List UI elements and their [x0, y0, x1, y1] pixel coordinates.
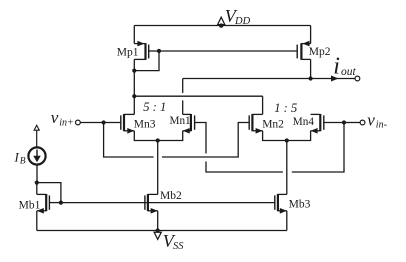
junction Mp1 drain node — [132, 69, 136, 73]
junction right tail node — [285, 138, 289, 142]
label I_B — [14, 150, 26, 167]
svg-text:Mn3: Mn3 — [134, 118, 156, 130]
wire PMOS gate bus to Mp2 — [159, 50, 297, 52]
junction v_in- node — [342, 120, 346, 124]
wire Mn1 gate cross-couple to v_in- (node B) — [195, 123, 206, 154]
transistor Mb2 (NMOS) — [145, 194, 158, 214]
svg-text:in+: in+ — [59, 117, 74, 128]
label i_out — [333, 53, 356, 79]
label VDD — [225, 6, 251, 27]
label VSS — [163, 231, 184, 252]
label v_in+ — [51, 108, 74, 128]
transistor Mn3 (NMOS) — [121, 114, 135, 134]
wire v_in+ cross-couple to Mn2 gate (node A) — [104, 123, 154, 158]
wire Mp1 source from VDD rail — [133, 26, 135, 44]
junction Mp1 gate node — [157, 49, 161, 53]
svg-text:Mn1: Mn1 — [170, 115, 191, 127]
svg-text:I: I — [14, 150, 20, 165]
wire Mp2 source from VDD rail — [310, 26, 312, 44]
wire I_B to Mb1 drain — [36, 165, 38, 183]
svg-text:out: out — [341, 66, 357, 78]
svg-text:Mb2: Mb2 — [160, 190, 182, 202]
svg-text:Mp2: Mp2 — [309, 46, 331, 58]
junction output node — [309, 76, 313, 80]
wire bias gate bus — [61, 202, 275, 204]
svg-text:i: i — [333, 53, 340, 79]
wire output line from Mn1 drain — [183, 78, 311, 80]
transistor Mn1 (NMOS) — [183, 114, 195, 134]
current source I_B — [28, 125, 45, 164]
transistor Mb3 (NMOS) — [275, 194, 287, 214]
svg-text:5 : 1: 5 : 1 — [143, 100, 166, 114]
wire VDD rail — [134, 25, 310, 27]
terminal v_in- — [360, 120, 365, 125]
wire cross line Mp1 drain to Mn2 drain — [134, 95, 262, 97]
svg-text:v: v — [367, 111, 375, 130]
label v_in- — [367, 111, 387, 131]
svg-text:Mb1: Mb1 — [19, 200, 41, 212]
wire Mn4 gate lead — [324, 122, 344, 124]
svg-text:Mn2: Mn2 — [262, 119, 284, 131]
wire right pair common source — [263, 131, 311, 141]
transistor Mp2 (PMOS) — [297, 41, 310, 60]
terminal i_out — [355, 76, 360, 81]
junction cross-line at Mp1 drain column — [132, 94, 136, 98]
terminal v_in+ — [76, 120, 81, 125]
junction left tail node — [156, 138, 160, 142]
svg-text:SS: SS — [173, 241, 184, 252]
power symbol VDD — [218, 17, 225, 28]
wire left pair common source — [134, 131, 182, 141]
svg-text:Mp1: Mp1 — [117, 47, 139, 59]
svg-text:v: v — [51, 108, 59, 127]
wire Mp2 drain down to output node — [310, 59, 312, 78]
junction v_in+ node — [102, 120, 106, 124]
junction Mb1 gate node — [59, 201, 63, 205]
wire left tail to Mb2 drain — [157, 141, 159, 195]
wire Mb1 gate lead — [49, 202, 61, 204]
wire v_in- lead — [344, 122, 360, 124]
transistor Mn2 (NMOS) — [249, 114, 262, 134]
svg-text:Mn4: Mn4 — [293, 116, 315, 128]
wire Mb2 source to VSS rail — [157, 211, 159, 231]
wire Mp1 diode connection — [134, 51, 159, 71]
wire v_in+ to Mn3 gate — [80, 122, 121, 124]
svg-text:Mb3: Mb3 — [289, 198, 311, 210]
transistor Mb1 (NMOS) — [37, 194, 50, 214]
svg-text:1 : 5: 1 : 5 — [274, 101, 297, 115]
svg-text:in-: in- — [376, 120, 387, 131]
svg-text:DD: DD — [234, 16, 251, 27]
transistor Mp1 (PMOS) — [134, 41, 148, 60]
wire output lead with current arrow — [311, 78, 355, 80]
transistor Mn4 (NMOS) — [311, 114, 324, 134]
wire Mb3 source to VSS rail — [286, 211, 288, 231]
junction VSS node — [156, 228, 160, 232]
wire VSS rail — [37, 230, 287, 232]
junction I_B Mb1 node — [35, 181, 39, 185]
wire Mp1 gate lead — [149, 50, 159, 52]
wire Mb1 source to VSS rail — [36, 211, 38, 231]
ground symbol VSS — [154, 232, 161, 239]
wire Mp1 drain to Mn3 drain — [133, 59, 135, 114]
wire I_B node to bias gate bus — [37, 183, 61, 203]
svg-text:B: B — [20, 157, 26, 167]
wire Mn1 drain up to output line (hops cross line) — [182, 79, 184, 93]
wire right tail to Mb3 drain — [286, 141, 288, 195]
